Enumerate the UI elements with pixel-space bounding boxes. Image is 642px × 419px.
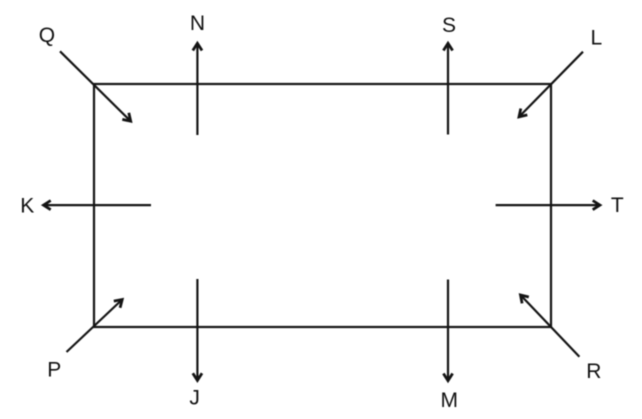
arrow P head: [114, 300, 122, 308]
svg-text:P: P: [47, 359, 61, 382]
arrow S head: [443, 43, 452, 50]
arrow R shaft: [521, 295, 580, 357]
svg-text:K: K: [20, 195, 34, 218]
svg-text:L: L: [590, 26, 602, 49]
arrow T head: [593, 201, 600, 210]
arrow R head: [521, 295, 529, 303]
arrow N shaft: [196, 46, 198, 135]
svg-text:T: T: [611, 194, 624, 217]
arrow K head: [44, 201, 51, 210]
svg-text:R: R: [586, 360, 601, 383]
svg-text:J: J: [189, 387, 200, 410]
arrow K shaft: [46, 204, 151, 206]
arrow J shaft: [196, 279, 198, 378]
svg-text:M: M: [441, 389, 459, 412]
rectangle body: [94, 84, 551, 327]
arrow T shaft: [496, 204, 598, 206]
svg-text:S: S: [442, 14, 456, 37]
arrow Q head: [122, 113, 130, 121]
arrow L head: [519, 109, 527, 117]
arrow P shaft: [67, 300, 123, 353]
svg-text:Q: Q: [39, 24, 55, 47]
arrow L shaft: [519, 52, 583, 117]
arrow Q shaft: [60, 51, 131, 121]
svg-text:N: N: [190, 12, 205, 35]
arrow J head: [193, 373, 202, 380]
arrow N head: [193, 43, 202, 50]
arrow M shaft: [447, 280, 449, 379]
arrow M head: [443, 374, 452, 381]
arrow S shaft: [447, 46, 449, 135]
